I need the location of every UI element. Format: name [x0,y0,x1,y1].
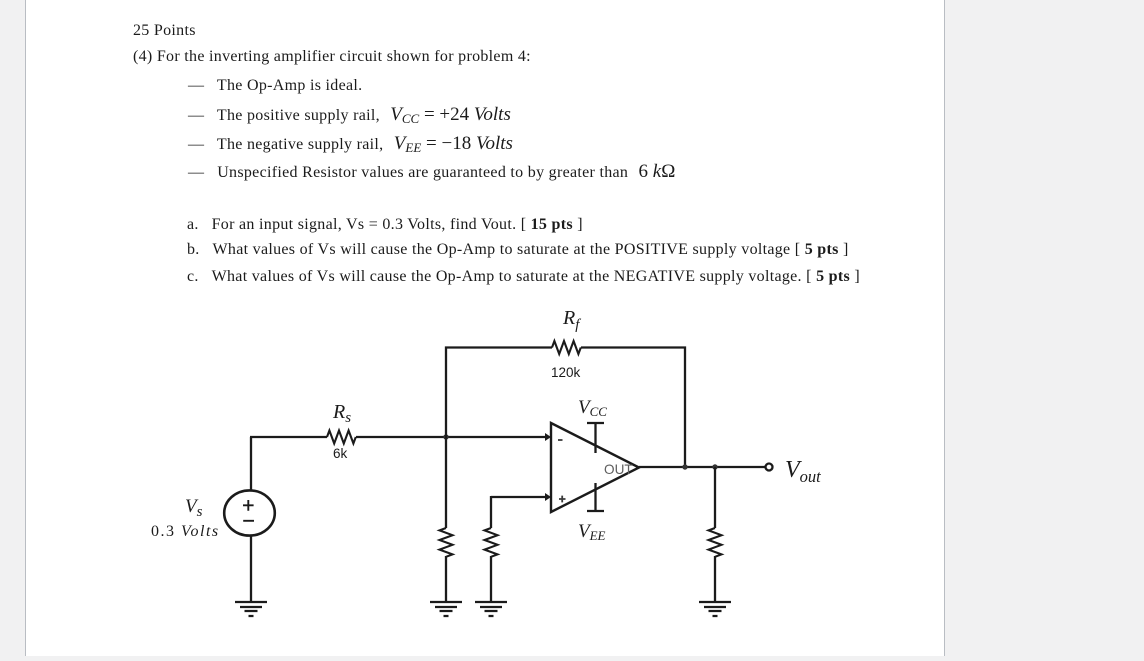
node junction dot load tap [712,464,717,469]
wire noninverting input to resistor R2 [491,496,545,528]
resistor R2 vertical zigzag [485,528,498,557]
text lines [133,21,196,41]
ground (load resistor) [699,602,731,616]
output terminal open circle [766,464,773,471]
wire feedback rail right + right vertical [581,348,685,468]
wire resistor R1 to ground [445,556,447,602]
op-amp noninverting input arrowhead [545,493,551,501]
svg-text:Vout: Vout [785,457,821,486]
ground (source) [235,602,267,616]
svg-text:OUT: OUT [604,462,633,477]
source minus sign [243,520,254,522]
node junction dot inverting node [443,434,448,439]
svg-text:VEE: VEE [578,521,606,543]
resistor RF zigzag [552,341,581,354]
svg-text:0.3 Volts: 0.3 Volts [151,523,220,540]
resistor RL vertical zigzag [709,528,722,557]
ground (noninverting resistor) [475,602,507,616]
op-amp VCC power pin [587,423,604,453]
op-amp plus pin label [559,496,566,503]
svg-text:Rs: Rs [332,401,351,426]
wire resistor RL to ground [714,556,716,602]
source plus sign [243,500,254,511]
wire source top to input line [250,437,252,491]
svg-text:Vs: Vs [185,496,203,520]
op-amp U1 triangle [551,423,639,512]
svg-text:Rf: Rf [562,307,581,333]
wire vertical inverting node + feedback rail left [446,348,552,529]
wire load vertical [714,467,716,528]
wire op-amp output [639,466,766,468]
resistor RS zigzag [327,431,356,444]
node junction dot feedback tap [682,464,687,469]
wire source bottom to ground [250,535,252,602]
op-amp VEE power pin [587,483,604,511]
op-amp inverting input arrowhead [545,433,551,441]
wire resistor R2 to ground [490,556,492,602]
wire input line left segment [250,436,327,438]
svg-text:VCC: VCC [578,397,607,419]
svg-text:6k: 6k [333,446,348,461]
ground (inverting node resistor) [430,602,462,616]
wire input line right segment to op-amp inverting input [356,436,545,438]
voltage source VS circle [224,490,275,535]
resistor R1 vertical zigzag [440,528,453,557]
svg-text:120k: 120k [551,365,581,380]
op-amp minus pin label [558,439,563,441]
